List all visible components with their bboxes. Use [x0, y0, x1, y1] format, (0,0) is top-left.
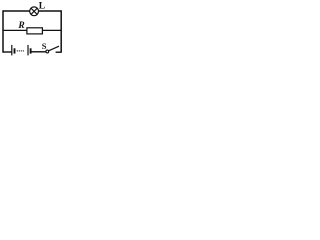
battery cell 1 short plate	[14, 48, 16, 53]
switch S hinge	[46, 50, 49, 53]
wire bottom-left segment	[3, 51, 12, 53]
battery cell 1 long plate	[11, 45, 13, 56]
wire bottom-middle segment (battery to switch)	[31, 51, 46, 53]
wire left vertical	[2, 10, 4, 52]
wire bottom-right segment (switch to corner)	[56, 51, 62, 53]
svg-text:S: S	[42, 41, 47, 51]
switch S blade	[49, 46, 59, 51]
battery cell 2 short plate	[30, 48, 32, 53]
wire middle-right segment	[42, 29, 61, 31]
battery ellipsis dots	[17, 50, 24, 51]
wire top-left segment	[3, 10, 30, 12]
wire right vertical	[60, 10, 62, 52]
resistor R	[27, 28, 43, 34]
battery cell 2 long plate	[27, 45, 29, 56]
svg-text:R: R	[17, 21, 24, 31]
wire top-right segment	[39, 10, 62, 12]
lamp L	[30, 7, 39, 16]
wire middle-left segment (node junction at left)	[3, 29, 27, 31]
svg-text:L: L	[39, 1, 45, 11]
